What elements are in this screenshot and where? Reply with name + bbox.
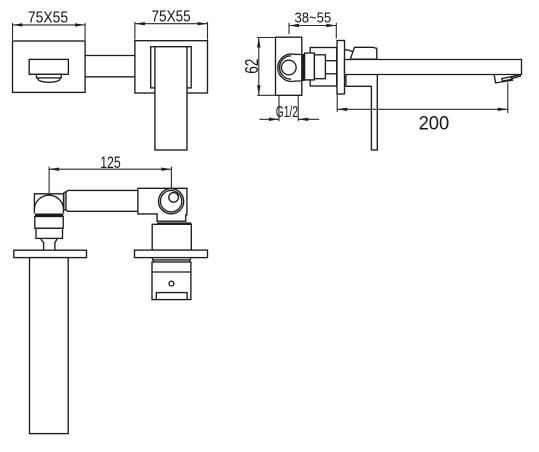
spacer ring bbox=[305, 53, 315, 80]
left wall plate bbox=[13, 41, 86, 92]
wall flange bbox=[337, 41, 345, 95]
dimension 75X55 left bbox=[13, 9, 86, 40]
spout step bbox=[37, 74, 62, 78]
connector bar wire top bbox=[85, 55, 135, 57]
svg-text:G1/2: G1/2 bbox=[276, 104, 298, 121]
spout face bbox=[29, 59, 68, 74]
valve body bbox=[276, 37, 302, 95]
handle body box1 bbox=[35, 217, 63, 229]
housing slot bbox=[156, 293, 187, 300]
lock band right dark bbox=[157, 222, 191, 224]
valve box above plate bbox=[152, 224, 191, 250]
handle dome box bbox=[34, 194, 63, 214]
spout outlet tip bbox=[494, 75, 512, 83]
svg-text:75X55: 75X55 bbox=[152, 8, 191, 25]
supply pipe top line bbox=[325, 60, 337, 62]
handle bar bbox=[155, 47, 187, 150]
dimension G1/2 bbox=[260, 95, 320, 121]
svg-text:38~55: 38~55 bbox=[295, 10, 332, 26]
svg-text:200: 200 bbox=[419, 114, 450, 135]
spout tip inner piece bbox=[511, 75, 520, 79]
svg-text:75X55: 75X55 bbox=[28, 9, 68, 26]
handle stem left bbox=[41, 238, 43, 250]
cartridge small circle bbox=[169, 193, 179, 203]
cartridge housing below plate bbox=[152, 262, 191, 300]
handle lever back arc bbox=[345, 50, 353, 52]
housing screw circle bbox=[169, 281, 174, 286]
svg-text:125: 125 bbox=[100, 153, 121, 172]
adapter block bbox=[314, 55, 325, 79]
dimension 62 bbox=[242, 38, 276, 96]
handle dome arc bbox=[34, 195, 63, 208]
handle recess bbox=[151, 47, 192, 88]
connecting pipe top bbox=[66, 190, 138, 192]
svg-text:62: 62 bbox=[242, 59, 262, 74]
neck below plate bbox=[152, 258, 191, 262]
cartridge inner circle bbox=[160, 191, 181, 212]
dimension 125 bbox=[49, 153, 171, 193]
pipe collar bbox=[64, 192, 66, 210]
handle body box2 bbox=[36, 228, 63, 238]
spout outlet ellipse bbox=[38, 76, 60, 83]
aerator bbox=[502, 77, 512, 81]
housing internal line bbox=[152, 271, 191, 273]
housing shell bbox=[310, 48, 337, 87]
connecting pipe bottom bbox=[66, 210, 138, 212]
dimension 75X55 right bbox=[135, 8, 208, 39]
handle stem right bbox=[55, 238, 57, 250]
dimension 38~55 bbox=[289, 10, 336, 38]
handle collar and rod bbox=[346, 75, 377, 150]
right wall plate bbox=[135, 41, 208, 93]
supply tube bbox=[30, 258, 69, 434]
cartridge dome omega outline bbox=[278, 54, 302, 81]
handle lever bbox=[350, 47, 377, 59]
cartridge inner circle bbox=[281, 60, 296, 75]
cartridge dome crescent bbox=[280, 56, 292, 80]
spout base body bbox=[138, 188, 187, 221]
spout side profile bbox=[345, 60, 522, 75]
connector bar wire bottom bbox=[85, 76, 135, 78]
handle lock band dark bbox=[35, 214, 63, 217]
dimension 200 bbox=[337, 82, 508, 134]
left mounting plate bbox=[14, 250, 87, 257]
right mounting plate bbox=[135, 250, 208, 258]
lock ring dark band bbox=[302, 54, 305, 81]
cartridge outer circle bbox=[159, 189, 184, 214]
supply pipe bottom line bbox=[325, 73, 337, 75]
